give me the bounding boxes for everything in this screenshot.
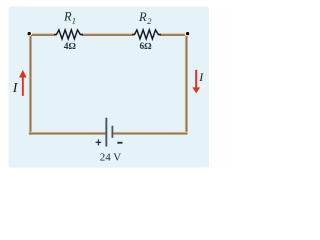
wire left vertical: [29, 34, 32, 134]
node B (top-right junction dot): [185, 31, 190, 36]
svg-text:2: 2: [147, 16, 152, 26]
battery B1 positive plate: [105, 118, 107, 147]
svg-text:R: R: [63, 9, 72, 23]
node A (top-left junction dot): [27, 31, 32, 36]
svg-text:R: R: [138, 10, 147, 24]
battery B1 negative plate: [112, 126, 114, 138]
svg-text:4Ω: 4Ω: [64, 42, 76, 52]
battery plus sign: [96, 139, 102, 145]
svg-text:6Ω: 6Ω: [140, 42, 152, 52]
resistor R1 zigzag: [54, 30, 83, 39]
wire top segment left (node A to R1): [30, 33, 56, 36]
current arrow left (up): [19, 70, 27, 96]
resistor R2 zigzag: [132, 30, 161, 39]
wire bottom segment left (to battery +): [29, 132, 106, 135]
wire bottom segment right (battery - to right): [113, 132, 187, 135]
current arrow right (down): [192, 70, 200, 94]
wire top segment right (R2 to node B): [160, 33, 188, 36]
svg-text:24 V: 24 V: [100, 151, 122, 163]
battery minus sign: [117, 142, 122, 144]
svg-text:1: 1: [72, 16, 76, 26]
panel background: [9, 6, 210, 167]
wire top segment middle (R1 to R2): [82, 33, 134, 36]
wire right vertical: [185, 35, 188, 134]
